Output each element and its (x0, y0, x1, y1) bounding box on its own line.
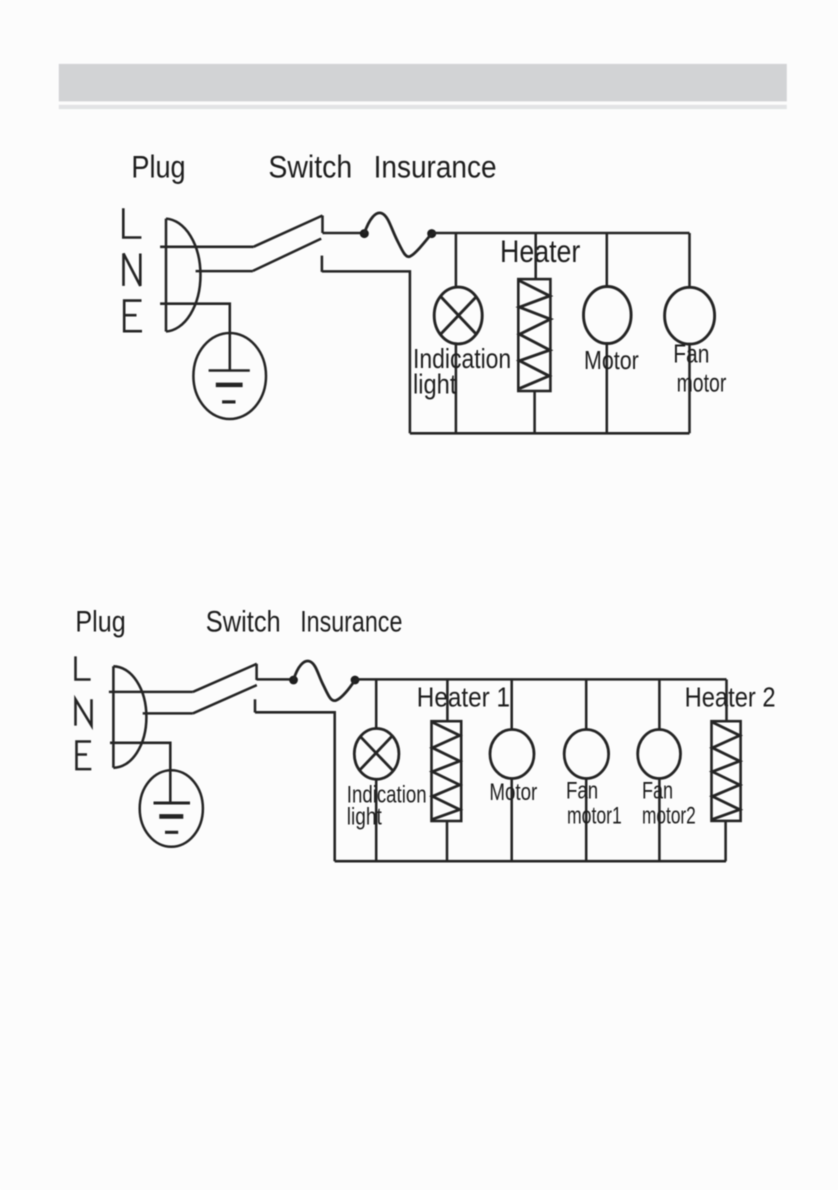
wire motor branch lower (diagram 2) (510, 779, 513, 862)
switch S1 lower blade (diagram 1) (253, 239, 321, 271)
wire fan motor 2 branch upper (diagram 2) (658, 679, 661, 729)
indication lamp LP1 (diagram 1) (434, 287, 482, 344)
wire L pin (diagram 1) (160, 246, 253, 249)
fuse F2 Insurance (diagram 2) (289, 661, 359, 701)
heater element R3 Heater 2 (diagram 2) (712, 721, 741, 821)
fan motor M2 (diagram 1) (665, 287, 715, 344)
switch S2 upper contact (diagram 2) (255, 664, 258, 680)
wire lamp branch lower (diagram 1) (455, 344, 458, 433)
plug body (diagram 2) (113, 666, 146, 768)
svg-text:Plug: Plug (75, 606, 125, 639)
svg-text:Switch: Switch (268, 149, 352, 185)
wire fan motor branch lower (diagram 1) (688, 344, 691, 433)
wire lower switch to bottom bus (diagram 1) (322, 271, 410, 433)
svg-text:light: light (413, 369, 457, 400)
label Indication light (diagram 1) (413, 343, 511, 400)
wire E pin (diagram 1) (160, 304, 230, 334)
svg-text:Fan: Fan (673, 339, 709, 369)
bottom bus wire (diagram 1) (410, 432, 690, 435)
wire heater branch upper (diagram 1) (534, 233, 537, 279)
wire lamp branch upper (diagram 1) (455, 233, 458, 287)
wire heater 1 branch upper (diagram 2) (446, 679, 449, 721)
plug body (diagram 1) (166, 219, 200, 332)
indication lamp LP2 (diagram 2) (354, 729, 399, 780)
bottom bus wire (diagram 2) (335, 860, 726, 863)
switch S1 upper contact (diagram 1) (321, 216, 324, 234)
pin letter L (diagram 2) (76, 656, 91, 679)
switch S2 lower contact (diagram 2) (254, 699, 257, 712)
top bus wire (diagram 1) (432, 232, 690, 235)
pin letter E (diagram 1) (124, 301, 142, 332)
wire switch to fuse (diagram 2) (257, 678, 294, 681)
switch S1 lower contact (diagram 1) (321, 256, 324, 272)
motor M1 (diagram 1) (584, 287, 632, 344)
wire fan motor 1 branch lower (diagram 2) (585, 779, 588, 862)
svg-text:Insurance: Insurance (374, 149, 497, 185)
wire heater branch lower (diagram 1) (533, 391, 536, 433)
label Fan motor (diagram 1) (673, 339, 726, 398)
fan motor M5 (diagram 2) (638, 730, 681, 779)
svg-text:Plug: Plug (131, 149, 185, 185)
label Fan motor1 (diagram 2) (566, 778, 622, 830)
heater element R1 (diagram 1) (518, 279, 550, 391)
svg-text:motor2: motor2 (642, 803, 696, 830)
wire heater 2 branch lower (diagram 2) (724, 821, 727, 861)
wire N pin (diagram 2) (143, 712, 193, 715)
svg-text:Fan: Fan (566, 778, 598, 805)
header bar (59, 64, 787, 109)
label Indication light (diagram 2) (347, 782, 427, 831)
top bus wire (diagram 2) (355, 678, 727, 681)
wire fan motor 1 branch upper (diagram 2) (585, 679, 588, 729)
svg-text:Motor: Motor (489, 779, 537, 806)
pin letter N (diagram 2) (76, 699, 92, 725)
wire lamp branch lower (diagram 2) (375, 779, 378, 861)
label Fan motor2 (diagram 2) (642, 778, 696, 830)
wire N pin (diagram 1) (196, 270, 253, 273)
wire switch to fuse (diagram 1) (323, 232, 365, 235)
wire fan motor 2 branch lower (diagram 2) (658, 779, 661, 862)
svg-text:Insurance: Insurance (300, 606, 402, 639)
svg-text:motor1: motor1 (567, 803, 622, 830)
switch S1 upper blade (diagram 1) (254, 216, 323, 247)
svg-text:motor: motor (677, 368, 727, 398)
wire heater 2 branch upper (diagram 2) (725, 679, 728, 721)
wire lamp branch upper (diagram 2) (375, 679, 378, 728)
heater element R2 Heater 1 (diagram 2) (432, 721, 462, 821)
svg-text:Fan: Fan (642, 778, 673, 805)
svg-text:light: light (347, 804, 382, 831)
wire motor branch upper (diagram 2) (510, 679, 513, 729)
wire E pin (diagram 2) (110, 743, 170, 771)
svg-text:Heater 1: Heater 1 (417, 681, 510, 712)
fan motor M4 (diagram 2) (564, 730, 608, 779)
wire lower switch to bottom bus (diagram 2) (255, 712, 335, 861)
pin letter L (diagram 1) (123, 208, 141, 237)
wire motor branch lower (diagram 1) (606, 344, 609, 434)
fuse F1 Insurance (diagram 1) (360, 213, 436, 257)
wire heater 1 branch lower (diagram 2) (446, 821, 449, 861)
wire fan motor branch upper (diagram 1) (688, 233, 691, 287)
switch S2 lower blade (diagram 2) (193, 685, 257, 713)
earth ground symbol (diagram 2) (140, 770, 203, 847)
switch S2 upper blade (diagram 2) (193, 664, 257, 692)
svg-text:Motor: Motor (584, 345, 639, 375)
pin letter E (diagram 2) (77, 742, 92, 770)
svg-text:Heater 2: Heater 2 (685, 681, 776, 712)
pin letter N (diagram 1) (124, 254, 141, 286)
svg-text:Heater: Heater (500, 233, 580, 269)
motor M3 (diagram 2) (490, 730, 534, 779)
svg-text:Switch: Switch (206, 606, 281, 639)
wire motor branch upper (diagram 1) (606, 233, 609, 287)
wire L pin (diagram 2) (109, 691, 193, 694)
earth ground symbol (diagram 1) (193, 333, 266, 419)
